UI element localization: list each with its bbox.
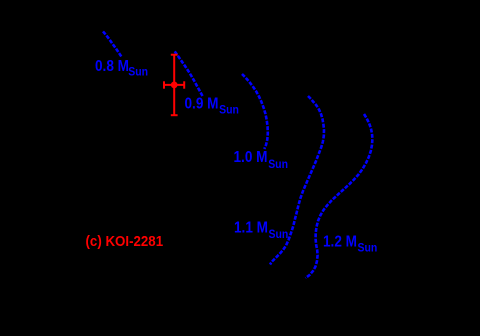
horizontal error bar left cap: [163, 81, 165, 88]
label 0.8 Msun: [95, 58, 148, 78]
svg-text:Sun: Sun: [128, 66, 148, 79]
svg-text:1.2 M: 1.2 M: [323, 234, 357, 251]
svg-text:Sun: Sun: [269, 229, 289, 242]
label 1.1 Msun: [234, 220, 288, 241]
label 1.2 Msun: [323, 234, 377, 255]
svg-text:Sun: Sun: [219, 104, 239, 117]
svg-text:Sun: Sun: [268, 158, 288, 171]
label (c) KOI-2281: [86, 233, 164, 250]
svg-text:Sun: Sun: [358, 242, 378, 255]
vertical error bar top cap: [171, 54, 178, 56]
svg-text:1.0 M: 1.0 M: [234, 149, 268, 166]
label 0.9 Msun: [185, 96, 240, 117]
svg-text:0.8 M: 0.8 M: [95, 58, 129, 75]
horizontal error bar right cap: [183, 81, 185, 88]
svg-text:1.1 M: 1.1 M: [234, 220, 268, 237]
label 1.0 Msun: [234, 149, 289, 171]
track 1.1 Msun dashed curve: [270, 96, 324, 265]
svg-text:0.9 M: 0.9 M: [185, 96, 219, 113]
svg-text:(c) KOI-2281: (c) KOI-2281: [86, 233, 164, 250]
track 0.8 Msun dashed curve: [103, 31, 122, 57]
track 0.9 Msun dashed curve: [175, 51, 203, 96]
red data point horizontal error bar: [164, 84, 184, 86]
track 1.2 Msun dashed curve: [306, 114, 373, 278]
red data point marker: [171, 82, 178, 89]
red data point vertical error bar: [173, 55, 175, 115]
track 1.0 Msun dashed curve: [242, 74, 268, 149]
vertical error bar bottom cap: [171, 114, 178, 116]
